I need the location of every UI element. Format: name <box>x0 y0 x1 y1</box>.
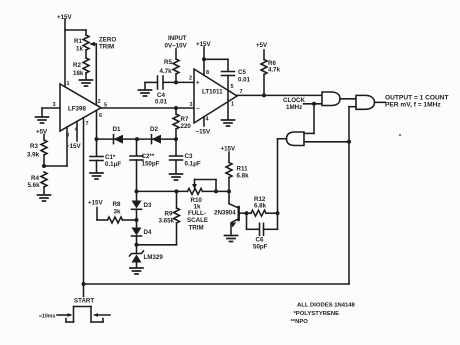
svg-text:5: 5 <box>231 84 234 90</box>
svg-text:R1: R1 <box>74 38 82 45</box>
svg-text:R8: R8 <box>113 201 121 208</box>
svg-text:4: 4 <box>75 127 79 133</box>
svg-text:+15V: +15V <box>88 200 103 207</box>
svg-text:4.7k: 4.7k <box>268 67 281 74</box>
svg-text:TRIM: TRIM <box>189 225 204 232</box>
svg-text:PER mV, f = 1MHz: PER mV, f = 1MHz <box>385 102 441 109</box>
svg-text:R9: R9 <box>165 211 173 218</box>
svg-text:CLOCK: CLOCK <box>283 97 306 104</box>
svg-text:6: 6 <box>99 113 102 119</box>
svg-text:C2**: C2** <box>142 153 155 160</box>
svg-text:7: 7 <box>240 89 243 95</box>
svg-text:6.8k: 6.8k <box>254 203 267 210</box>
svg-text:LT1011: LT1011 <box>202 89 223 96</box>
svg-text:D4: D4 <box>144 229 152 236</box>
svg-text:+15V: +15V <box>221 146 236 153</box>
svg-text:8: 8 <box>66 133 69 139</box>
svg-text:3.65k: 3.65k <box>159 218 175 225</box>
svg-text:0.1μF: 0.1μF <box>185 161 201 168</box>
svg-text:*POLYSTYRENE: *POLYSTYRENE <box>294 311 340 317</box>
svg-text:5.6k: 5.6k <box>28 182 41 189</box>
svg-text:START: START <box>74 298 94 305</box>
svg-text:D2: D2 <box>150 126 158 133</box>
svg-text:1MHz: 1MHz <box>286 104 302 111</box>
svg-text:150pF: 150pF <box>142 161 160 168</box>
svg-text:1: 1 <box>231 102 234 108</box>
svg-text:C1*: C1* <box>105 154 116 161</box>
svg-text:ALL DIODES 1N4148: ALL DIODES 1N4148 <box>297 303 356 309</box>
svg-text:2: 2 <box>189 76 192 82</box>
svg-text:2: 2 <box>98 99 101 105</box>
svg-text:+5V: +5V <box>256 42 268 49</box>
svg-text:3: 3 <box>53 102 56 108</box>
svg-text:R4: R4 <box>31 175 39 182</box>
svg-text:4: 4 <box>206 117 210 123</box>
svg-text:3k: 3k <box>114 209 121 216</box>
svg-text:SCALE: SCALE <box>187 217 208 224</box>
svg-text:INPUT: INPUT <box>168 35 187 42</box>
svg-text:1: 1 <box>67 81 70 87</box>
svg-text:OUTPUT = 1 COUNT: OUTPUT = 1 COUNT <box>385 95 449 102</box>
svg-text:−: − <box>196 107 200 113</box>
svg-text:6.8k: 6.8k <box>237 173 250 180</box>
svg-text:TRIM: TRIM <box>99 44 114 51</box>
svg-text:3.9k: 3.9k <box>27 152 40 159</box>
svg-text:0.01: 0.01 <box>238 77 251 84</box>
svg-text:8: 8 <box>206 70 209 76</box>
svg-text:220: 220 <box>181 123 192 130</box>
svg-text:0V−10V: 0V−10V <box>165 43 188 50</box>
svg-text:LM329: LM329 <box>144 254 164 261</box>
svg-text:≈10ms: ≈10ms <box>39 314 56 320</box>
svg-text:−15V: −15V <box>66 143 81 150</box>
svg-text:0.01: 0.01 <box>155 99 168 106</box>
svg-text:C6: C6 <box>256 237 264 244</box>
svg-text:0.1μF: 0.1μF <box>105 161 121 168</box>
svg-text:**NPO: **NPO <box>291 319 309 325</box>
svg-text:50pF: 50pF <box>253 244 268 251</box>
svg-text:R5: R5 <box>164 59 172 66</box>
svg-text:R3: R3 <box>30 143 38 150</box>
svg-text:−15V: −15V <box>196 129 211 136</box>
svg-text:7: 7 <box>86 121 89 127</box>
svg-text:D3: D3 <box>144 202 152 209</box>
svg-text:2N3904: 2N3904 <box>214 210 236 217</box>
svg-text:D1: D1 <box>113 126 121 133</box>
svg-text:R2: R2 <box>73 62 81 69</box>
svg-text:18k: 18k <box>73 70 84 77</box>
svg-text:LF398: LF398 <box>68 106 86 113</box>
svg-text:R7: R7 <box>181 116 189 123</box>
svg-text:3: 3 <box>190 102 193 108</box>
svg-text:+15V: +15V <box>196 41 211 48</box>
svg-text:+15V: +15V <box>57 14 72 21</box>
svg-text:ZERO: ZERO <box>99 37 116 44</box>
svg-text:FULL-: FULL- <box>188 210 206 217</box>
svg-text:C3: C3 <box>185 153 193 160</box>
svg-text:5: 5 <box>104 103 107 109</box>
svg-text:4.7k: 4.7k <box>160 68 173 75</box>
svg-text:+5V: +5V <box>36 129 48 136</box>
svg-text:C5: C5 <box>238 69 246 76</box>
svg-text:R11: R11 <box>237 166 249 173</box>
svg-text:+: + <box>196 81 200 87</box>
svg-text:1k: 1k <box>76 46 83 53</box>
